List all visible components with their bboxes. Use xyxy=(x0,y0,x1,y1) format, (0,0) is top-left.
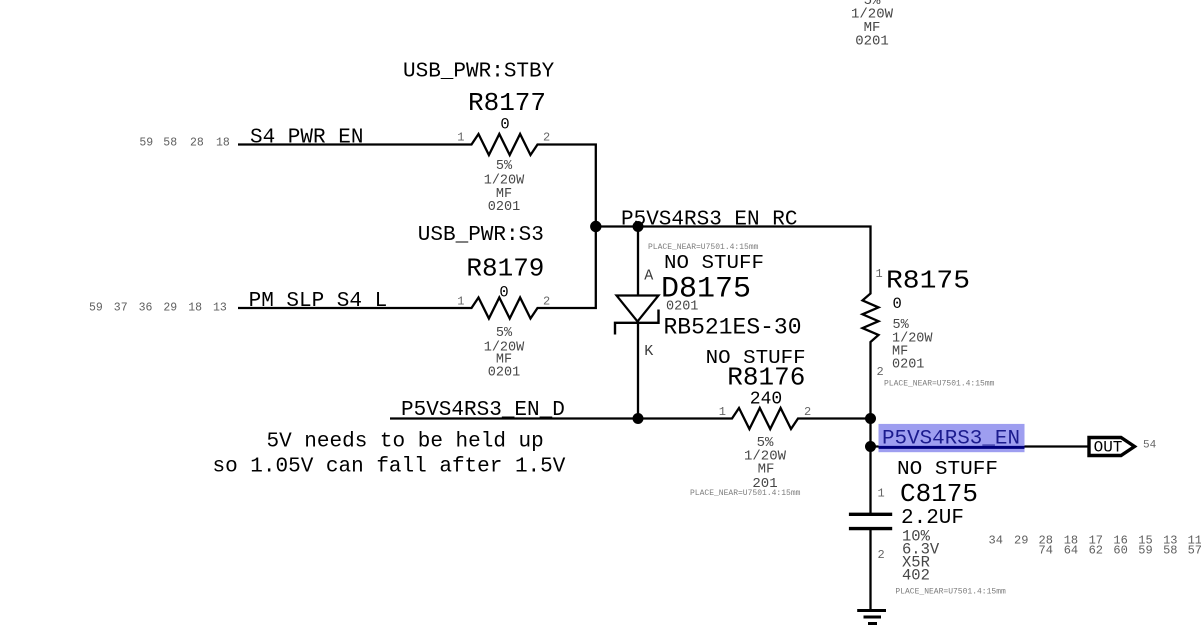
node P5VS4RS3_EN_RC horizontal wire and right vertical with resistor R8175 zigzag down to capacitor xyxy=(596,227,879,515)
svg-text:OUT: OUT xyxy=(1094,439,1123,457)
svg-text:64: 64 xyxy=(1064,544,1078,558)
svg-text:62: 62 xyxy=(1089,544,1103,558)
highlighted net P5VS4RS3_EN xyxy=(879,424,1025,452)
wire S4_PWR_EN net with resistor R8177 body and vertical join to PM_SLP_S4_L wire xyxy=(238,134,596,319)
svg-text:0: 0 xyxy=(500,116,509,134)
page refs for PM_SLP_S4_L xyxy=(89,302,227,315)
resistor R8177 attributes xyxy=(484,159,525,215)
svg-text:0201: 0201 xyxy=(488,366,520,381)
svg-text:2: 2 xyxy=(543,131,550,145)
svg-text:0201: 0201 xyxy=(892,358,924,373)
svg-text:2: 2 xyxy=(804,405,811,419)
svg-text:2: 2 xyxy=(878,548,885,562)
svg-text:RB521ES-30: RB521ES-30 xyxy=(664,315,802,341)
OUT port flag xyxy=(1089,438,1135,456)
svg-text:R8176: R8176 xyxy=(727,363,805,393)
wire capacitor lower lead to ground xyxy=(869,529,871,610)
resistor R8175 attributes xyxy=(892,318,933,373)
wire diode branch lower xyxy=(637,322,639,419)
page refs for S4_PWR_EN xyxy=(139,137,230,150)
page refs grid for P5VS4RS3_EN row 1 xyxy=(989,534,1201,548)
wire P5VS4RS3_EN output to OUT port xyxy=(871,445,1089,447)
svg-text:P5VS4RS3_EN_D: P5VS4RS3_EN_D xyxy=(401,399,565,422)
svg-text:36: 36 xyxy=(139,302,153,315)
page refs grid for P5VS4RS3_EN row 2 xyxy=(1039,544,1201,558)
svg-text:0: 0 xyxy=(499,284,508,302)
svg-text:PLACE_NEAR=U7501.4:15mm: PLACE_NEAR=U7501.4:15mm xyxy=(690,489,801,498)
svg-text:59: 59 xyxy=(89,302,103,315)
svg-text:57: 57 xyxy=(1188,544,1201,558)
svg-text:5V needs to be held up: 5V needs to be held up xyxy=(267,431,544,454)
svg-text:P5VS4RS3_EN: P5VS4RS3_EN xyxy=(882,428,1020,451)
svg-text:54: 54 xyxy=(1143,440,1157,452)
svg-text:1: 1 xyxy=(457,295,464,309)
svg-text:NO STUFF: NO STUFF xyxy=(897,458,998,480)
capacitor C8175 plates xyxy=(849,514,892,528)
svg-text:USB_PWR:STBY: USB_PWR:STBY xyxy=(403,61,555,84)
svg-text:58: 58 xyxy=(1163,544,1177,558)
svg-text:28: 28 xyxy=(190,137,204,150)
svg-text:37: 37 xyxy=(114,302,128,315)
ground symbol xyxy=(857,611,886,624)
svg-text:0201: 0201 xyxy=(855,34,889,50)
resistor R8179 attributes xyxy=(484,326,525,381)
capacitor C8175 attributes xyxy=(902,528,940,585)
svg-text:5%: 5% xyxy=(496,159,513,174)
svg-text:PLACE_NEAR=U7501.4:15mm: PLACE_NEAR=U7501.4:15mm xyxy=(884,380,995,389)
resistor R8176 attributes xyxy=(744,435,787,492)
svg-text:0: 0 xyxy=(893,295,902,313)
offscreen resistor attribute text (top edge) xyxy=(851,0,894,50)
svg-text:402: 402 xyxy=(902,567,930,585)
svg-text:R8179: R8179 xyxy=(466,254,544,284)
svg-text:58: 58 xyxy=(163,137,177,150)
svg-text:PM_SLP_S4_L: PM_SLP_S4_L xyxy=(249,290,388,313)
wire P5VS4RS3_EN_D with resistor R8176 zigzag xyxy=(390,408,871,429)
svg-text:59: 59 xyxy=(1138,544,1152,558)
svg-text:240: 240 xyxy=(750,390,782,410)
svg-text:PLACE_NEAR=U7501.4:15mm: PLACE_NEAR=U7501.4:15mm xyxy=(648,243,759,252)
wire diode branch upper xyxy=(637,227,639,297)
svg-text:NO STUFF: NO STUFF xyxy=(664,252,764,274)
svg-text:1: 1 xyxy=(876,267,883,281)
svg-text:29: 29 xyxy=(1014,534,1028,548)
diode D8175 triangle xyxy=(617,296,659,322)
svg-text:USB_PWR:S3: USB_PWR:S3 xyxy=(418,224,544,247)
svg-text:A: A xyxy=(644,268,653,285)
svg-text:34: 34 xyxy=(989,534,1003,548)
svg-text:18: 18 xyxy=(188,302,202,315)
svg-text:C8175: C8175 xyxy=(900,479,978,509)
svg-text:so 1.05V can fall after 1.5V: so 1.05V can fall after 1.5V xyxy=(213,456,566,479)
svg-text:R8175: R8175 xyxy=(886,266,970,296)
svg-text:59: 59 xyxy=(139,137,153,150)
svg-text:74: 74 xyxy=(1039,544,1053,558)
junction node dots xyxy=(590,221,601,232)
svg-text:P5VS4RS3_EN_RC: P5VS4RS3_EN_RC xyxy=(621,209,797,232)
svg-text:S4_PWR_EN: S4_PWR_EN xyxy=(250,127,363,150)
svg-text:2: 2 xyxy=(543,295,550,309)
svg-text:2: 2 xyxy=(877,365,884,379)
svg-text:13: 13 xyxy=(213,302,227,315)
svg-text:0201: 0201 xyxy=(488,200,520,215)
svg-text:0201: 0201 xyxy=(666,300,698,315)
svg-text:1: 1 xyxy=(719,405,726,419)
svg-text:R8177: R8177 xyxy=(468,88,546,118)
diode D8175 schottky cathode bar xyxy=(615,310,659,335)
svg-text:5%: 5% xyxy=(496,326,513,341)
svg-text:1: 1 xyxy=(878,487,885,501)
svg-text:1: 1 xyxy=(457,131,464,145)
svg-text:60: 60 xyxy=(1113,544,1127,558)
svg-text:PLACE_NEAR=U7501.4:15mm: PLACE_NEAR=U7501.4:15mm xyxy=(895,587,1006,596)
svg-text:29: 29 xyxy=(163,302,177,315)
svg-text:K: K xyxy=(644,343,653,360)
svg-text:18: 18 xyxy=(216,137,230,150)
